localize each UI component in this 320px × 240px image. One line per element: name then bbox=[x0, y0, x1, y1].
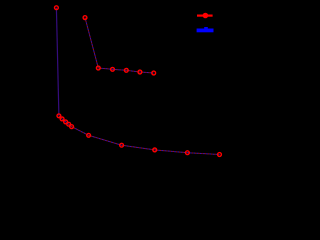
curve A marker 3 bbox=[60, 117, 64, 121]
curve A marker 11 bbox=[218, 153, 222, 157]
curve B marker 2 bbox=[96, 66, 100, 70]
legend blue sample marker nub bbox=[204, 27, 208, 29]
curve A marker 2 bbox=[57, 114, 61, 118]
curve B marker 3 bbox=[111, 67, 115, 71]
curve B marker 4 bbox=[124, 68, 128, 72]
legend red sample marker bbox=[203, 13, 209, 19]
curve B marker 5 bbox=[138, 70, 142, 74]
curve A marker 1 bbox=[55, 6, 59, 10]
curve A marker 9 bbox=[153, 148, 157, 152]
curve A marker 4 bbox=[64, 120, 68, 124]
curve A marker 10 bbox=[186, 151, 190, 155]
legend red sample line bbox=[197, 15, 213, 17]
curve A red data line (dashed beads) bbox=[59, 116, 220, 155]
curve A blue theory line (dashed beads offset) bbox=[59, 116, 220, 155]
legend blue sample line bbox=[197, 29, 214, 33]
curve B red data line (dashed beads) bbox=[85, 18, 154, 73]
curve B marker 1 bbox=[83, 16, 87, 20]
curve B blue theory line (dashed beads offset) bbox=[85, 18, 154, 73]
curve A marker 5 bbox=[67, 122, 71, 126]
curve B marker 6 bbox=[152, 71, 156, 75]
curve A steep segment line bbox=[56, 8, 59, 116]
curve A marker 7 bbox=[87, 133, 91, 137]
curve A marker 6 bbox=[70, 125, 74, 129]
curve A marker 8 bbox=[120, 143, 124, 147]
